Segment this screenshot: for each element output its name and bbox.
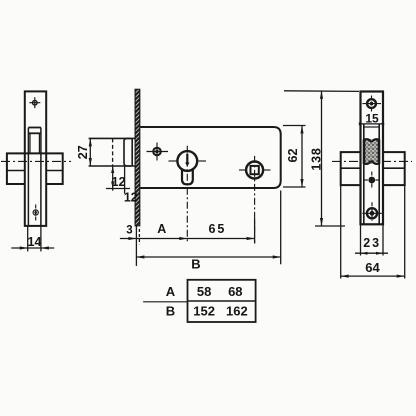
svg-text:B: B bbox=[191, 256, 200, 271]
svg-text:62: 62 bbox=[286, 149, 300, 163]
svg-text:14: 14 bbox=[28, 235, 42, 249]
svg-text:138: 138 bbox=[309, 147, 323, 170]
svg-text:B: B bbox=[166, 304, 175, 319]
svg-text:64: 64 bbox=[365, 260, 380, 275]
svg-text:27: 27 bbox=[76, 145, 90, 159]
svg-text:A: A bbox=[157, 222, 166, 236]
svg-text:23: 23 bbox=[363, 236, 381, 250]
svg-text:15: 15 bbox=[365, 112, 379, 126]
svg-text:12: 12 bbox=[124, 190, 138, 204]
svg-text:68: 68 bbox=[228, 284, 242, 299]
svg-text:A: A bbox=[166, 284, 176, 299]
svg-text:65: 65 bbox=[208, 222, 226, 236]
svg-text:3: 3 bbox=[126, 225, 132, 237]
svg-text:162: 162 bbox=[226, 304, 248, 319]
svg-text:152: 152 bbox=[193, 304, 215, 319]
svg-text:58: 58 bbox=[197, 284, 211, 299]
svg-text:12: 12 bbox=[112, 175, 126, 189]
